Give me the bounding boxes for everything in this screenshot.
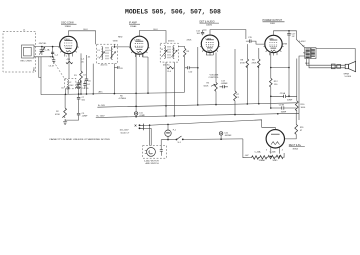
svg-text:5: 5 <box>147 44 148 46</box>
resistor R8 <box>240 44 249 105</box>
svg-text:L4: L4 <box>110 50 112 52</box>
svg-text:4: 4 <box>282 150 283 152</box>
svg-text:GRN: GRN <box>113 40 118 42</box>
svg-text:50-60 CY: 50-60 CY <box>121 132 130 134</box>
svg-text:L5: L5 <box>161 49 163 51</box>
svg-text:1: 1 <box>264 43 265 45</box>
svg-text:50B5: 50B5 <box>270 23 276 25</box>
wire V4 cathode column <box>270 53 290 79</box>
capacitor C10 <box>185 66 199 73</box>
AC line <box>144 120 275 128</box>
det audio tube V3 12AT6 <box>200 35 220 52</box>
volume control R5 <box>204 53 220 106</box>
wire BLU plate V2 to T2 <box>139 29 166 43</box>
rect tube V5 35W4 <box>266 127 284 153</box>
wire switch line to motor cap <box>160 140 162 150</box>
svg-text:C-8 .05: C-8 .05 <box>82 88 90 90</box>
svg-text:12BE6: 12BE6 <box>65 26 72 28</box>
svg-text:1: 1 <box>130 44 131 46</box>
svg-text:470K: 470K <box>240 63 245 65</box>
svg-text:500K: 500K <box>204 86 209 88</box>
capacitor C17 <box>287 31 296 39</box>
phono cartridge <box>21 45 35 63</box>
svg-text:MODELS 505, 506, 507, 508: MODELS 505, 506, 507, 508 <box>125 9 221 16</box>
resistor R9 <box>252 48 261 104</box>
capacitor C11 <box>134 112 145 118</box>
svg-text:12AT6: 12AT6 <box>205 37 212 40</box>
svg-text:L6: L6 <box>173 49 175 51</box>
resistor R6 label <box>119 96 127 101</box>
electrolytic C19A <box>270 92 297 102</box>
svg-text:CONTROL: CONTROL <box>209 77 220 79</box>
svg-text:50B5: 50B5 <box>273 160 279 162</box>
svg-text:C-20A: C-20A <box>255 151 262 154</box>
svg-text:12BA6: 12BA6 <box>130 25 137 28</box>
speaker connector <box>332 64 341 69</box>
AVC bus <box>41 90 184 95</box>
svg-text:CAPACITY IN MMF UNLESS OTHERWI: CAPACITY IN MMF UNLESS OTHERWISE NOTED <box>49 138 111 141</box>
svg-text:470K: 470K <box>55 114 60 116</box>
label IF AMP <box>129 21 140 28</box>
svg-text:REC CHGR: REC CHGR <box>21 61 33 63</box>
svg-text:BLU: BLU <box>306 57 311 59</box>
capacitor C15 coupling <box>246 37 264 44</box>
wire V1 cathode column <box>66 54 79 94</box>
capacitor C5 <box>85 55 92 94</box>
svg-text:GRN: GRN <box>283 44 288 46</box>
svg-text:5: 5 <box>218 42 219 44</box>
resistor R7 <box>234 49 240 115</box>
resistor R3 <box>55 94 67 121</box>
svg-text:4.7MEG: 4.7MEG <box>119 98 127 100</box>
label RECT & B+ <box>289 144 305 151</box>
wire V3 grid column <box>197 47 199 105</box>
svg-text:1: 1 <box>201 42 202 44</box>
capacitor C6 <box>114 66 123 70</box>
wire V1 pin stubs <box>65 52 73 56</box>
svg-text:C19A: C19A <box>280 92 286 95</box>
capacitor C14 grid cap <box>196 30 207 35</box>
svg-text:5-0160: 5-0160 <box>345 76 352 78</box>
capacitor C8b <box>75 86 89 89</box>
svg-text:.005MF: .005MF <box>221 83 229 85</box>
capacitor C3 <box>49 57 56 68</box>
svg-text:5-0647 MOTOR: 5-0647 MOTOR <box>144 160 159 162</box>
svg-text:C3 47: C3 47 <box>49 66 55 68</box>
resistor R4b horizontal <box>167 66 174 73</box>
wire V3 plate to C15 <box>210 30 246 39</box>
svg-text:50B5: 50B5 <box>269 39 275 41</box>
svg-text:B+ 96V: B+ 96V <box>98 105 105 107</box>
capacitor C2 <box>45 48 59 56</box>
svg-text:AND SWITCH: AND SWITCH <box>146 162 160 165</box>
svg-text:105-125V: 105-125V <box>120 130 130 132</box>
filament string resistors <box>245 151 285 163</box>
svg-text:5: 5 <box>77 43 78 45</box>
capacitor C21 <box>219 132 232 140</box>
record changer dashed enclosure <box>3 30 36 72</box>
svg-text:1: 1 <box>59 43 60 45</box>
svg-text:BLK: BLK <box>34 66 36 71</box>
osc-conv tube V1 12BE6 <box>58 36 78 58</box>
svg-text:C19B: C19B <box>279 105 285 107</box>
wire V4 pin stubs <box>270 52 277 56</box>
capacitor C9 <box>65 107 88 120</box>
wire V4 plate to T3 <box>274 30 307 48</box>
resistor R4 diode load <box>178 47 190 93</box>
svg-text:47K: 47K <box>67 59 71 61</box>
svg-text:GN/YEL: GN/YEL <box>39 43 47 45</box>
wire V2 cathode column <box>136 54 148 112</box>
label POWER OUTPUT <box>263 19 285 25</box>
wire plug to motor <box>150 125 152 145</box>
wire BLU plate V1 to T1 <box>69 29 96 44</box>
svg-text:12BE6: 12BE6 <box>64 39 71 41</box>
capacitor C4 <box>83 75 91 89</box>
capacitor C13 <box>220 80 229 88</box>
wire to filament string <box>243 139 252 158</box>
svg-text:3: 3 <box>266 150 267 152</box>
label OSC-CONV <box>61 21 77 28</box>
B+ bus 1 <box>97 103 296 107</box>
svg-text:L3: L3 <box>98 50 100 52</box>
pilot lamp P1 <box>165 124 177 140</box>
output transformer T3 <box>302 46 316 65</box>
resistor R1 <box>74 53 82 94</box>
label DET & AUDIO <box>200 20 220 26</box>
phono motor <box>144 148 159 166</box>
svg-text:.02MF: .02MF <box>82 116 89 118</box>
svg-text:455 KC: 455 KC <box>101 64 108 66</box>
wire antenna to grid <box>34 46 60 95</box>
if amp tube V2 12BA6 <box>129 36 149 54</box>
svg-text:470K: 470K <box>252 63 257 65</box>
svg-text:7: 7 <box>66 56 67 58</box>
wire V3 pin stubs <box>206 52 213 56</box>
svg-text:C-1A: C-1A <box>45 48 50 51</box>
wire T1 returns <box>92 64 115 95</box>
wire T2 columns <box>165 62 175 117</box>
svg-text:AVC: AVC <box>99 90 104 93</box>
svg-text:50MF: 50MF <box>287 99 293 101</box>
svg-text:12BA6: 12BA6 <box>134 39 141 42</box>
capacitor C7 <box>77 94 86 107</box>
interlock plug <box>120 124 152 135</box>
svg-text:RED: RED <box>118 37 123 39</box>
svg-text:12BA6: 12BA6 <box>259 159 266 162</box>
svg-text:.005MF: .005MF <box>224 135 232 137</box>
resistor R12 <box>269 78 278 108</box>
svg-text:OSC: OSC <box>69 85 74 87</box>
svg-text:BLU: BLU <box>84 29 89 31</box>
capacitor C8 <box>61 87 70 94</box>
svg-text:B+ 105V: B+ 105V <box>97 116 106 118</box>
wire GRN T1 to V2 grid <box>113 37 131 48</box>
wire T3 to speaker <box>307 49 356 68</box>
wire V2 pin stubs <box>135 54 143 57</box>
wire T3 to B+ columns <box>288 39 305 121</box>
resistor R10 <box>295 101 306 114</box>
resistor R11 <box>285 113 305 139</box>
capacitor C22 motor <box>160 150 163 156</box>
motor enclosure <box>143 146 167 159</box>
svg-text:BLU: BLU <box>154 29 159 31</box>
svg-text:12AT6: 12AT6 <box>206 23 213 26</box>
svg-text:455 KC: 455 KC <box>163 65 170 67</box>
svg-text:455KC: 455KC <box>168 41 175 43</box>
svg-text:C-20B: C-20B <box>270 152 277 154</box>
power output tube V4 50B5 <box>264 35 284 52</box>
capacitor C5 labels <box>81 59 85 64</box>
IF transformer T2 <box>160 41 178 67</box>
ground <box>63 122 67 125</box>
gang capacitor C1B <box>76 80 81 88</box>
electrolytic C19B <box>270 105 297 114</box>
dashed gang link <box>50 56 66 80</box>
osc coil L2 <box>65 78 76 89</box>
svg-text:470K: 470K <box>187 40 192 42</box>
svg-text:30MF: 30MF <box>281 112 287 114</box>
gang capacitor C1A <box>39 43 47 55</box>
svg-text:5-0142: 5-0142 <box>299 41 306 43</box>
resistor R2 osc grid <box>66 59 73 64</box>
svg-text:RED: RED <box>303 53 308 55</box>
switch S1 <box>161 136 243 144</box>
B+ bus 2 <box>96 113 299 118</box>
IF transformer T1 <box>97 44 118 66</box>
svg-text:VOLUME: VOLUME <box>210 74 219 76</box>
svg-text:35W4: 35W4 <box>293 149 299 151</box>
speaker <box>344 61 356 78</box>
